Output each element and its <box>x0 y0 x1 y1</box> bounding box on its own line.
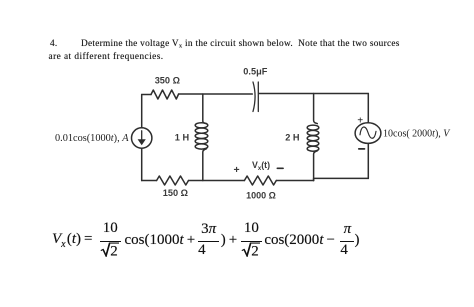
svg-text:Vx(t): Vx(t) <box>252 160 270 172</box>
wire bottom (150ohm to 1000ohm) <box>189 180 245 182</box>
svg-text:1000 Ω: 1000 Ω <box>246 190 276 200</box>
wire top middle (resistor to capacitor) <box>179 93 253 95</box>
wire 2H branch top <box>314 94 318 124</box>
label 1 H <box>175 133 190 143</box>
label 150 ohm <box>163 188 188 198</box>
svg-text:+: + <box>357 115 363 126</box>
problem statement line 1 <box>50 39 58 49</box>
inductor L2 2H <box>307 125 319 151</box>
resistor R2 150ohm <box>157 176 189 185</box>
wire right branch top <box>367 94 369 123</box>
wire 2H branch bottom <box>314 151 318 181</box>
voltage source V1 <box>355 123 381 144</box>
resistor R1 350ohm <box>151 90 179 99</box>
wire top right (capacitor to right corner) <box>259 93 368 95</box>
current source label 0.01cos(1000t), A <box>55 133 129 144</box>
wire 1H branch bottom <box>203 149 207 181</box>
inductor L1 1H <box>195 123 208 149</box>
label 0.5uF <box>243 66 267 76</box>
svg-text:2 H: 2 H <box>285 132 300 142</box>
svg-text:0.01cos(1000t), A: 0.01cos(1000t), A <box>55 133 129 144</box>
voltage source label 10cos(2000t), V <box>383 129 451 140</box>
svg-text:2: 2 <box>110 244 118 258</box>
wire bottom (1000ohm to 2H branch) <box>276 180 313 182</box>
current source I1 <box>132 128 152 148</box>
label 350 ohm <box>155 75 180 85</box>
annotation plus of Vx <box>234 164 240 176</box>
svg-text:350 Ω: 350 Ω <box>155 75 180 85</box>
label 2 H <box>285 132 300 142</box>
equation Vx(t) result <box>52 239 359 241</box>
svg-text:10cos( 2000t), V: 10cos( 2000t), V <box>383 129 451 140</box>
resistor R3 1000ohm <box>244 176 276 185</box>
polarity minus of V1 <box>359 148 365 150</box>
svg-text:0.5μF: 0.5μF <box>243 66 267 76</box>
svg-text:2: 2 <box>251 244 259 258</box>
wire left vertical <box>141 95 143 181</box>
wire top-left stub <box>142 94 151 96</box>
wire bottom-left stub <box>142 180 157 182</box>
annotation minus of Vx <box>277 167 283 169</box>
wire 1H branch top <box>203 94 207 124</box>
svg-text:+: + <box>234 164 240 176</box>
label 1000 ohm <box>246 190 276 200</box>
wire right branch bottom <box>367 143 369 178</box>
problem statement line 2 <box>49 52 164 62</box>
wire bottom right segment <box>314 178 369 180</box>
svg-text:150 Ω: 150 Ω <box>163 188 188 198</box>
capacitor C1 0.5uF <box>253 82 258 112</box>
polarity plus of V1 <box>357 115 363 126</box>
annotation Vx(t) <box>252 160 270 172</box>
svg-text:1 H: 1 H <box>175 133 190 143</box>
